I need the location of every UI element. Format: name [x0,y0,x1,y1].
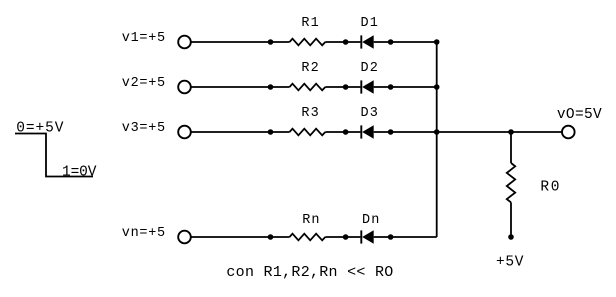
svg-text:v1=+5: v1=+5 [122,31,165,46]
wire vn input to resistor Rn [191,236,290,238]
svg-text:con R1,R2,Rn << RO: con R1,R2,Rn << RO [226,264,393,281]
diode Dn triangle [362,230,374,244]
terminal vn [178,231,191,244]
diode D3 triangle [362,125,374,139]
resistor R1 [290,39,326,46]
node dot after D1 [388,39,394,45]
svg-text:D1: D1 [361,16,378,31]
node dot v1 wire [268,39,274,45]
node dot after D3 [388,129,394,135]
junction dot bus row1 [434,39,440,45]
node dot v3 wire [268,129,274,135]
terminal v3 [178,126,191,139]
svg-text:R2: R2 [301,61,318,76]
waveform step 0=+5V / 1=0V [15,134,93,177]
svg-text:vO=5V: vO=5V [557,107,602,123]
svg-text:R3: R3 [301,106,318,121]
wire resistor R1 to diode D1 [325,41,360,43]
node dot after Dn [388,234,394,240]
wire resistor Rn to diode Dn [325,236,360,238]
svg-text:vn=+5: vn=+5 [122,226,165,241]
svg-text:v2=+5: v2=+5 [122,76,165,91]
wire diode D3 through bus to output terminal [374,131,562,133]
svg-text:D3: D3 [361,106,378,121]
resistor R3 [290,129,326,136]
junction dot bus row3 [434,129,440,135]
wire resistor R2 to diode D2 [325,86,360,88]
node dot v2 wire [268,84,274,90]
svg-text:Rn: Rn [302,213,319,228]
wire v3 input to resistor R3 [191,131,290,133]
resistor Rn [290,234,326,241]
wire resistor R0 to +5V [510,202,512,237]
node dot R3-D3 [343,129,349,135]
terminal v1 [178,36,191,49]
svg-text:R0: R0 [540,180,559,196]
node dot R2-D2 [343,84,349,90]
wire v1 input to resistor R1 [191,41,290,43]
node dot R1-D1 [343,39,349,45]
diode D2 triangle [362,80,374,94]
wire v2 input to resistor R2 [191,86,290,88]
diode D1 cathode bar [360,35,362,48]
svg-text:D2: D2 [361,61,378,76]
terminal vO output [562,126,575,139]
node dot vn wire [268,234,274,240]
node dot Rn-Dn [343,234,349,240]
diode D2 cathode bar [360,80,362,93]
diode Dn cathode bar [360,230,362,243]
wire resistor R3 to diode D3 [325,131,360,133]
node dot R0 bottom (+5V) [508,234,514,240]
wire output node to resistor R0 [510,132,512,163]
resistor R0 [507,163,515,202]
wire diode Dn to bus corner [374,236,437,238]
svg-text:1=0V: 1=0V [62,164,97,180]
svg-text:0=+5V: 0=+5V [16,120,63,136]
svg-text:R1: R1 [301,16,318,31]
node dot after D2 [388,84,394,90]
svg-text:Dn: Dn [362,213,379,228]
junction dot output node [508,129,514,135]
wire diode D2 to bus [374,86,437,88]
wire diode D1 to bus [374,41,437,43]
svg-text:v3=+5: v3=+5 [122,121,165,136]
diode D1 triangle [362,35,374,49]
resistor R2 [290,84,326,91]
svg-text:+5V: +5V [496,254,524,270]
wire common bus vertical [436,42,438,237]
junction dot bus row2 [434,84,440,90]
diode D3 cathode bar [360,125,362,138]
terminal v2 [178,81,191,94]
